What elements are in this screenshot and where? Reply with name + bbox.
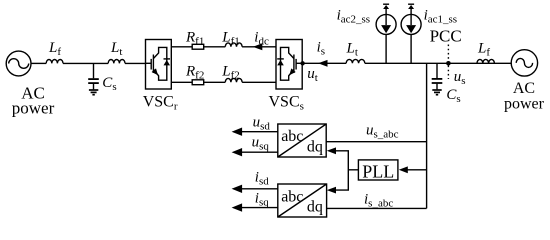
node VSCs output	[300, 61, 304, 65]
AC source left	[6, 51, 54, 117]
block abc/dq 1	[278, 124, 326, 157]
wire bottom rail	[171, 81, 192, 83]
svg-text:isq: isq	[255, 190, 269, 208]
svg-text:dq: dq	[307, 139, 323, 156]
svg-text:Lf: Lf	[48, 40, 61, 58]
IGBT Q of VSCs	[296, 62, 302, 64]
svg-text:iac2_ss: iac2_ss	[337, 8, 371, 26]
arrow u_sd	[232, 115, 278, 136]
wire	[302, 62, 346, 64]
svg-text:isd: isd	[255, 169, 269, 187]
converter VSCr	[143, 40, 178, 113]
svg-text:PLL: PLL	[362, 162, 394, 182]
AC source right	[504, 50, 545, 113]
inductor Lf1	[221, 29, 242, 47]
wire	[242, 46, 276, 48]
arrow theta to abc/dq 2	[327, 187, 336, 194]
diode D of VSCs	[277, 58, 284, 60]
svg-text:iac1_ss: iac1_ss	[424, 8, 458, 26]
block abc/dq 2	[278, 184, 327, 217]
svg-text:Cs: Cs	[446, 87, 460, 105]
current arrow i_s	[317, 40, 328, 67]
wire PLL output theta	[335, 151, 358, 190]
svg-text:is: is	[317, 40, 325, 58]
svg-text:Rf1: Rf1	[185, 29, 204, 47]
wire	[125, 62, 146, 64]
svg-text:dq: dq	[307, 199, 323, 216]
wire	[242, 81, 276, 83]
arrow i_sd	[232, 169, 278, 193]
inductor Lf right	[477, 40, 494, 63]
svg-text:Lt: Lt	[346, 40, 358, 58]
arrow i_sq	[232, 190, 278, 212]
svg-text:is_abc: is_abc	[364, 192, 393, 210]
arrow u_sq	[232, 134, 278, 156]
wire u_s_abc	[326, 122, 426, 141]
svg-text:us_abc: us_abc	[366, 122, 399, 140]
block PLL	[358, 160, 398, 182]
node PCC junction	[446, 61, 451, 66]
measurement line PCC dotted	[447, 45, 449, 80]
svg-text:ut: ut	[307, 66, 318, 84]
svg-text:VSCs: VSCs	[269, 93, 304, 112]
svg-text:usd: usd	[253, 115, 271, 133]
wire top rail	[171, 46, 192, 48]
svg-text:idc: idc	[254, 30, 269, 48]
svg-text:Lt: Lt	[110, 40, 122, 58]
ground	[89, 90, 98, 95]
svg-text:Cs: Cs	[102, 75, 116, 93]
ground	[432, 90, 441, 95]
inductor Lt right	[346, 40, 365, 63]
wire	[31, 62, 46, 64]
arrow PLL input	[399, 166, 427, 173]
svg-text:Lf: Lf	[477, 40, 490, 58]
current source i_ac1_ss	[401, 4, 457, 63]
resistor Rf1	[185, 29, 204, 49]
svg-text:power: power	[504, 96, 545, 113]
inductor Lf2	[221, 63, 242, 82]
svg-text:power: power	[12, 99, 55, 118]
inductor Lf left	[46, 40, 63, 64]
wire measurement tap	[426, 63, 428, 208]
svg-text:abc: abc	[281, 188, 303, 205]
svg-text:Rf2: Rf2	[185, 63, 204, 81]
diode D of VSCr	[164, 58, 171, 60]
IGBT Q of VSCr	[146, 62, 152, 64]
converter VSCs	[269, 40, 304, 113]
svg-text:VSCr: VSCr	[143, 93, 178, 112]
svg-text:us: us	[454, 69, 466, 87]
svg-text:PCC: PCC	[430, 27, 462, 46]
current arrow i_dc	[253, 30, 269, 51]
wire	[204, 81, 226, 83]
current source i_ac2_ss	[337, 4, 397, 63]
svg-text:Lf1: Lf1	[221, 29, 240, 47]
wire i_s_abc	[327, 192, 427, 210]
wire	[63, 62, 108, 64]
capacitor Cs right	[432, 63, 461, 105]
arrow theta to abc/dq 1	[327, 147, 336, 154]
wire	[204, 46, 226, 48]
svg-text:Lf2: Lf2	[221, 63, 240, 81]
inductor Lt left	[108, 40, 125, 63]
resistor Rf2	[185, 63, 204, 84]
svg-text:abc: abc	[281, 128, 303, 145]
capacitor Cs left	[88, 63, 116, 93]
svg-text:usq: usq	[252, 134, 270, 152]
wire	[365, 62, 512, 64]
